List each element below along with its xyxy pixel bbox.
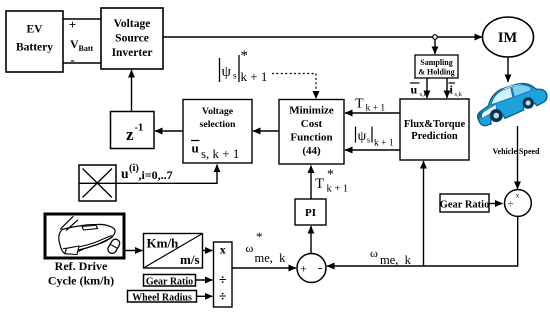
svg-text:*: * (256, 229, 263, 244)
voltage vector box (79, 165, 116, 201)
svg-text:Battery: Battery (16, 42, 53, 54)
wire car to divider (517, 126, 519, 189)
Sampling & Holding block (415, 55, 458, 78)
wire speed reference to sum (232, 267, 296, 269)
label VBatt (70, 37, 94, 53)
svg-text:÷: ÷ (219, 289, 226, 304)
svg-text:k + 1: k + 1 (366, 104, 386, 114)
svg-text:selection: selection (200, 119, 236, 130)
svg-text:Prediction: Prediction (411, 131, 458, 142)
svg-text:Wheel Radius: Wheel Radius (132, 292, 192, 303)
svg-text:+: + (300, 262, 307, 276)
svg-text:k + 1: k + 1 (241, 69, 268, 84)
feedback branch to prediction (423, 161, 425, 266)
label psi k+1 (356, 127, 394, 149)
label omega me,k (370, 246, 412, 267)
induction motor IM (483, 17, 534, 57)
z-1 delay block (111, 112, 155, 149)
wire node to sampling (434, 39, 436, 54)
svg-text:me, k: me, k (380, 253, 412, 267)
svg-text:u: u (121, 166, 129, 181)
svg-text:s,k: s,k (455, 91, 463, 98)
svg-text:Function: Function (290, 132, 332, 144)
multiply divide block (214, 242, 233, 307)
summing junction (297, 254, 326, 283)
svg-text:s, k + 1: s, k + 1 (201, 146, 239, 161)
Ref Drive Cycle block (45, 214, 124, 288)
svg-text:T: T (315, 176, 324, 192)
svg-text:Cycle (km/h): Cycle (km/h) (48, 274, 114, 288)
vehicle car icon (472, 76, 550, 127)
svg-text:Inverter: Inverter (112, 47, 153, 59)
svg-text:Batt: Batt (79, 44, 94, 53)
wire gear ratio to divider cell (196, 279, 213, 281)
svg-text:ψ: ψ (358, 129, 367, 144)
svg-text:Vehicle Speed: Vehicle Speed (492, 147, 540, 156)
label omega star me,k (246, 229, 287, 265)
svg-text:u: u (411, 83, 418, 97)
svg-text:Ref. Drive: Ref. Drive (55, 259, 108, 273)
svg-text:Voltage: Voltage (114, 18, 151, 30)
svg-text:*: * (241, 48, 249, 64)
label is,k (449, 83, 463, 99)
svg-text:z: z (126, 125, 134, 144)
wire cost to voltage selection (253, 130, 279, 132)
Km/h to m/s converter (144, 234, 203, 269)
label u(i) i=0..7 (121, 163, 173, 182)
speed feedback wire (327, 216, 518, 266)
PI controller block (295, 199, 326, 225)
node junction on stator line (433, 35, 438, 40)
svg-text:Sampling: Sampling (420, 58, 452, 67)
svg-text:s: s (367, 136, 370, 145)
svg-text:& Holding: & Holding (418, 68, 454, 77)
svg-text:k + 1: k + 1 (374, 139, 394, 149)
Voltage selection block (183, 100, 252, 164)
svg-text:Gear Ratio: Gear Ratio (146, 276, 193, 287)
Wheel Radius block (128, 291, 197, 304)
wire psi prediction to cost (345, 149, 400, 151)
wire sum to PI (310, 226, 312, 253)
Gear Ratio block right (440, 194, 490, 212)
divider circle (505, 190, 532, 217)
wire battery plus (63, 18, 101, 20)
svg-text:-: - (318, 260, 322, 275)
svg-text:Gear Ratio: Gear Ratio (440, 199, 490, 210)
Minimize Cost Function block (279, 100, 344, 165)
svg-text:ψ: ψ (222, 64, 232, 80)
svg-text:ω: ω (246, 241, 254, 255)
svg-text:*: * (327, 168, 334, 183)
svg-text:k + 1: k + 1 (327, 184, 349, 195)
svg-text:ω: ω (370, 246, 378, 260)
wire cost to PI reference (310, 166, 312, 200)
wire vectors to voltage selection (116, 165, 217, 184)
svg-text:+: + (69, 17, 76, 32)
svg-text:Flux&Torque: Flux&Torque (404, 119, 466, 130)
svg-text:m/s: m/s (180, 252, 200, 267)
svg-text:(44): (44) (302, 145, 321, 157)
wire IM to car (507, 57, 509, 82)
label us,k (410, 83, 428, 99)
svg-text:IM: IM (498, 30, 518, 46)
svg-text:Km/h: Km/h (147, 236, 180, 251)
svg-text:Source: Source (115, 33, 149, 45)
svg-text:,i=0,..7: ,i=0,..7 (139, 168, 173, 182)
svg-text:Minimize: Minimize (289, 105, 334, 117)
svg-text:-1: -1 (135, 123, 144, 134)
svg-text:÷: ÷ (219, 272, 226, 287)
wire battery minus (63, 62, 101, 64)
wire sampling to prediction (current) (446, 78, 448, 98)
wire drive cycle to converter (125, 250, 143, 252)
wire z-1 to VSI (131, 70, 133, 112)
svg-text:me, k: me, k (255, 251, 287, 265)
label Tk+1 (355, 97, 385, 114)
Voltage Source Inverter block (101, 8, 163, 69)
wire sampling to prediction (voltage) (426, 78, 428, 98)
Gear Ratio block left (144, 275, 196, 288)
svg-text:x: x (516, 192, 520, 200)
wire voltage selection to z-1 (155, 130, 183, 132)
svg-text:x: x (220, 243, 226, 257)
wire converter to multiplier (203, 250, 213, 252)
svg-text:Voltage: Voltage (202, 106, 234, 117)
label T star k+1 (315, 168, 348, 195)
EV Battery block (6, 11, 63, 72)
Flux & Torque Prediction block (400, 99, 469, 160)
svg-text:÷: ÷ (507, 199, 513, 211)
pedal shoe icon (59, 216, 121, 255)
wire Tk+1 prediction to cost (345, 112, 400, 114)
svg-text:PI: PI (305, 207, 316, 219)
svg-text:-: - (70, 52, 74, 67)
wire VSI to IM (163, 36, 482, 38)
dashed flux reference wire (272, 74, 316, 93)
svg-text:Cost: Cost (301, 118, 323, 130)
wire gear ratio to divider (489, 203, 503, 205)
wire wheel radius to divider cell (197, 295, 213, 297)
svg-text:T: T (355, 97, 364, 112)
svg-text:s: s (233, 71, 237, 81)
label psi star k+1 reference (220, 48, 268, 84)
svg-text:u: u (192, 141, 199, 156)
svg-text:EV: EV (27, 24, 44, 36)
